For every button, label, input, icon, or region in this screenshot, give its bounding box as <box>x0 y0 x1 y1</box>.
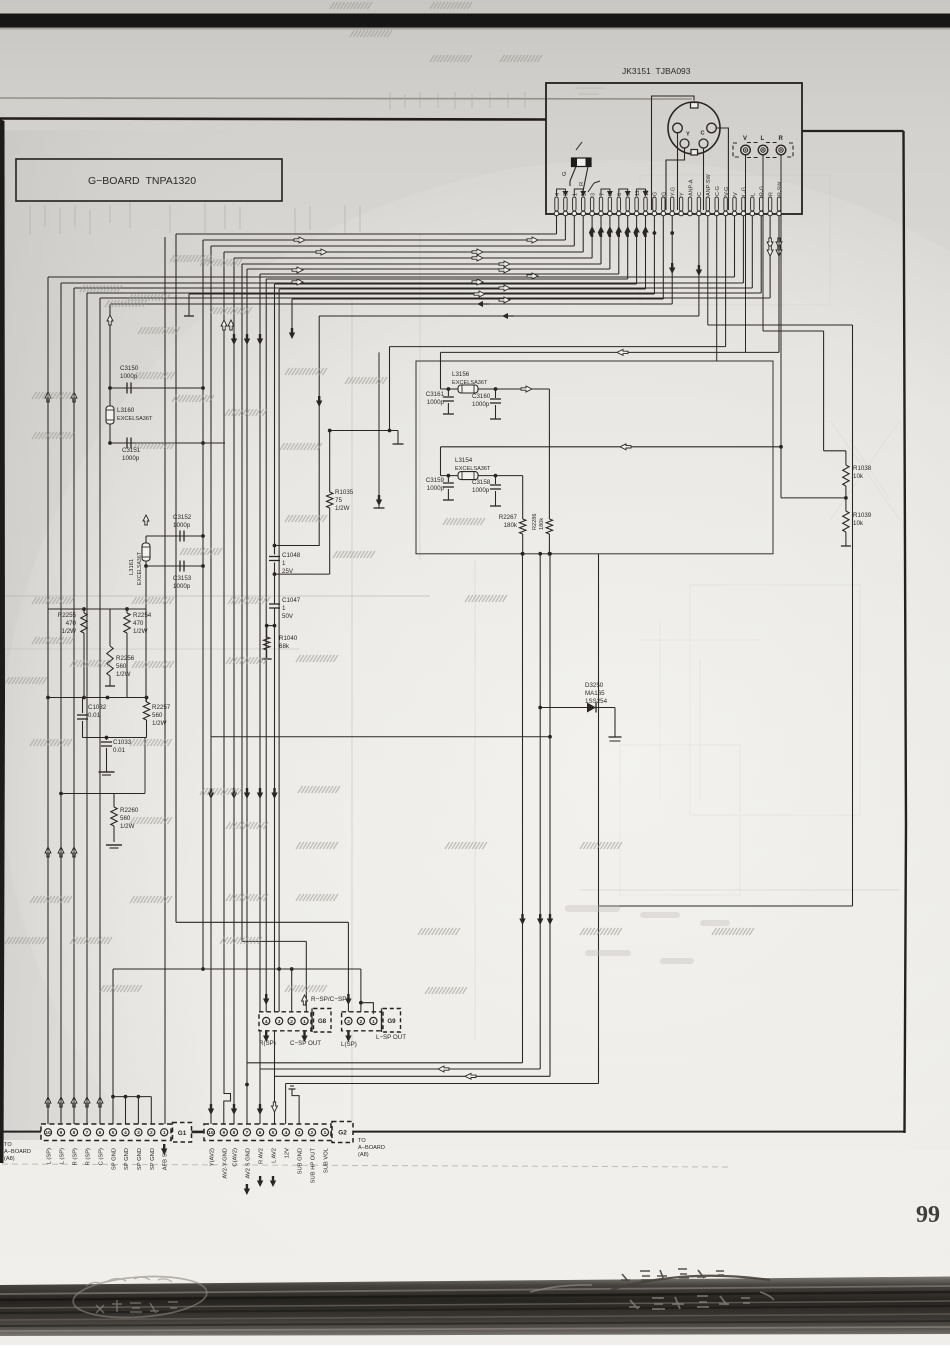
G1 pin 9 <box>57 1129 64 1136</box>
terminal R <box>776 145 786 155</box>
wire: G1 pin6 riser <box>99 298 101 1124</box>
svg-text:560: 560 <box>120 815 131 822</box>
wire: G2 pin5 riser upper segment (to C1048) <box>274 284 276 555</box>
connector G2 dashed outline <box>204 1124 331 1141</box>
down arrows on risers y=920 <box>519 914 525 925</box>
capacitor C3158 <box>495 476 497 484</box>
resistor R2254 <box>126 609 128 613</box>
filled down arrows on Y-G and C wires <box>669 263 675 274</box>
svg-text:1/2W: 1/2W <box>62 628 77 635</box>
svg-text:2: 2 <box>150 1130 153 1136</box>
svg-text:SUB VOL: SUB VOL <box>323 1147 329 1173</box>
G9 pin 1 <box>370 1017 377 1024</box>
junction dots on pin wires <box>653 231 657 235</box>
svg-text:75: 75 <box>335 497 342 504</box>
svg-text:G9: G9 <box>387 1018 396 1025</box>
extra bleed smudges <box>565 905 730 964</box>
ground R2260 <box>106 844 122 846</box>
svg-text:1000p: 1000p <box>173 583 191 590</box>
svg-text:1/2W: 1/2W <box>116 671 131 678</box>
svg-text:4: 4 <box>285 1130 288 1136</box>
wire: G8 pin3 riser <box>278 289 280 1012</box>
svg-text:3: 3 <box>590 193 596 196</box>
svg-text:8: 8 <box>73 1130 76 1136</box>
svg-text:L AV2: L AV2 <box>272 1148 278 1163</box>
svg-text:R−SP/C−SP: R−SP/C−SP <box>311 996 347 1003</box>
svg-text:EXCELSA36T: EXCELSA36T <box>452 380 488 386</box>
filled up arrows under connector pins <box>589 226 595 237</box>
svg-text:1: 1 <box>303 1019 306 1025</box>
svg-text:EXCELSA36T: EXCELSA36T <box>117 416 153 422</box>
svg-text:1/2W: 1/2W <box>133 628 148 635</box>
hollow left arrows on G2 feed lines <box>438 1066 449 1072</box>
G8 pin 4 <box>263 1017 270 1024</box>
svg-text:R: R <box>579 182 585 186</box>
net dots at y=430.5 <box>330 430 398 432</box>
svg-text:3: 3 <box>137 1130 140 1136</box>
svg-text:10k: 10k <box>853 473 864 480</box>
G1 pin 6 <box>96 1129 103 1136</box>
svg-text:A−BOARD: A−BOARD <box>358 1145 385 1151</box>
capacitor C1048 (electrolytic) <box>269 556 280 558</box>
diode D3250 MA165 1SS254 <box>538 706 542 710</box>
G8 pin 2 <box>288 1017 295 1024</box>
svg-text:1000p: 1000p <box>173 522 191 529</box>
bottom scan bar <box>0 1277 950 1337</box>
svg-text:C3159: C3159 <box>426 477 445 484</box>
svg-text:2: 2 <box>290 1019 293 1025</box>
wire bottom of C1032/R2257 <box>83 737 147 739</box>
svg-text:SP GND: SP GND <box>112 1148 118 1170</box>
svg-text:4: 4 <box>124 1130 127 1136</box>
svg-text:0.01: 0.01 <box>113 747 126 754</box>
svg-text:TO: TO <box>358 1138 366 1144</box>
resistor R2260 <box>61 793 145 795</box>
svg-text:4: 4 <box>265 1019 268 1025</box>
arrows middle bundle at y=794 <box>208 788 214 799</box>
svg-text:R(SP): R(SP) <box>259 1040 276 1047</box>
svg-text:G8: G8 <box>318 1018 327 1025</box>
wire: to G2 pin4 <box>286 1083 599 1085</box>
svg-text:7: 7 <box>86 1130 89 1136</box>
svg-text:11: 11 <box>635 190 641 196</box>
G1 pin 3 <box>135 1129 142 1136</box>
svg-text:180k: 180k <box>539 518 545 530</box>
svg-text:R2267: R2267 <box>499 514 518 521</box>
G2 pin 7 <box>243 1129 250 1136</box>
G2 label box <box>332 1122 353 1143</box>
inductor L3161 <box>145 536 147 702</box>
svg-text:6: 6 <box>99 1130 102 1136</box>
inductor L3154 <box>441 475 523 477</box>
svg-text:EXCELSA36T: EXCELSA36T <box>137 551 143 585</box>
capacitor C3159 <box>447 476 449 482</box>
connector JK3151 TJBA093 box <box>546 83 802 214</box>
svg-text:AV2-Y-GND: AV2-Y-GND <box>222 1148 228 1179</box>
svg-text:L3160: L3160 <box>117 407 135 414</box>
svg-text:68k: 68k <box>279 643 290 650</box>
svg-text:V-G: V-G <box>724 187 730 196</box>
svg-text:470: 470 <box>66 620 77 627</box>
G1 pin 2 <box>148 1129 155 1136</box>
svg-text:6: 6 <box>617 193 623 196</box>
heavy rule <box>0 119 546 120</box>
wire fan far-left to G1 risers <box>48 276 735 278</box>
G2 pin 1 <box>321 1129 328 1136</box>
svg-text:3: 3 <box>298 1130 301 1136</box>
dashed box around V L R terminals <box>733 143 793 158</box>
G9 pin 3 <box>345 1017 352 1024</box>
resistor R1040 <box>266 626 268 637</box>
arrows above G1 <box>45 1097 51 1107</box>
capacitor C3153 <box>146 565 203 567</box>
svg-text:R AV2: R AV2 <box>259 1148 265 1164</box>
svg-text:99: 99 <box>916 1202 940 1228</box>
svg-text:C: C <box>701 131 705 137</box>
svg-text:L−SP OUT: L−SP OUT <box>376 1034 406 1041</box>
resistor R2267 <box>522 476 524 519</box>
G1 pin 1 <box>161 1129 168 1136</box>
svg-text:5: 5 <box>272 1130 275 1136</box>
resistor R1038 <box>845 451 847 465</box>
svg-text:SUB GND: SUB GND <box>298 1148 304 1174</box>
wire: G1 pin10 riser <box>47 277 49 1124</box>
left page gutter bar <box>0 119 5 1163</box>
svg-text:10: 10 <box>45 1130 51 1136</box>
svg-text:R: R <box>779 136 784 142</box>
wire: G2 pin7 riser <box>246 269 248 1124</box>
wire: G1 SP GND bus <box>113 1096 151 1098</box>
G2 pin 9 <box>220 1129 227 1136</box>
svg-text:MA165: MA165 <box>585 690 605 697</box>
G9 pin 2 <box>357 1017 364 1024</box>
G-BOARD TNPA1320 title box <box>16 159 282 201</box>
wire: tap from divider to x=790 <box>781 497 846 499</box>
wire: riser x=825.6 to divider <box>823 331 825 451</box>
svg-text:6: 6 <box>259 1130 262 1136</box>
svg-text:180k: 180k <box>504 522 518 529</box>
svg-text:EXCELSA36T: EXCELSA36T <box>455 466 491 472</box>
wire: S-video internal Y/C routing <box>652 96 695 172</box>
svg-text:JK3151 TJBA093: JK3151 TJBA093 <box>622 66 691 76</box>
inductor L3156 <box>441 388 550 390</box>
svg-text:10k: 10k <box>853 520 864 527</box>
svg-text:C3152: C3152 <box>173 514 192 521</box>
svg-text:(A8): (A8) <box>358 1152 369 1158</box>
svg-text:G−BOARD TNPA1320: G−BOARD TNPA1320 <box>88 175 196 187</box>
G2 pin 2 <box>308 1129 315 1136</box>
svg-text:R2286: R2286 <box>532 514 538 530</box>
svg-text:G1: G1 <box>178 1130 187 1137</box>
svg-text:7: 7 <box>599 193 605 196</box>
svg-text:(A8): (A8) <box>4 1156 15 1162</box>
svg-text:C(AV2): C(AV2) <box>233 1148 239 1167</box>
schematic border top-right <box>802 130 904 132</box>
svg-text:1/2W: 1/2W <box>335 505 350 512</box>
svg-text:3: 3 <box>278 1019 281 1025</box>
capacitor C1033 <box>106 738 108 741</box>
inductor L3160 <box>109 304 111 443</box>
capacitor C3152 <box>146 535 203 537</box>
filter sub-circuit box <box>416 361 773 554</box>
svg-text:1000p: 1000p <box>472 487 490 494</box>
capacitor C1047 (electrolytic) <box>269 603 280 605</box>
wire: to G8 pin1 (C-SP) <box>241 264 243 941</box>
thin gray rule <box>0 98 692 99</box>
stamp left <box>72 1272 208 1321</box>
svg-text:C: C <box>697 192 703 196</box>
svg-text:1: 1 <box>163 1130 166 1136</box>
wire: riser x=522.5 to G2 pin7 <box>522 554 524 1063</box>
svg-text:5: 5 <box>112 1130 115 1136</box>
svg-text:Y(AV2): Y(AV2) <box>209 1148 215 1166</box>
ground D3250 <box>609 736 622 738</box>
terminal L <box>758 145 768 155</box>
svg-text:L (SP): L (SP) <box>47 1148 53 1164</box>
resistor R2257 <box>146 698 148 703</box>
svg-text:R2257: R2257 <box>152 704 171 711</box>
arrow below G1 pin1 <box>161 1144 167 1155</box>
wire: feed to L3156 row <box>441 351 780 353</box>
wire: divider feed from L terminal <box>763 330 824 332</box>
svg-text:1: 1 <box>324 1130 327 1136</box>
G8 label box <box>314 1009 332 1033</box>
wire: G stub down from fan corner <box>291 299 293 338</box>
wire: G2 pin5 riser lower part via C1047 net <box>274 563 276 605</box>
svg-text:C1033: C1033 <box>113 739 132 746</box>
wire: to G9 pin3 (L-SP) <box>175 234 177 922</box>
G2 pin 10 <box>207 1129 214 1136</box>
resistor R2286 drop from L3156 line <box>548 389 550 519</box>
svg-text:1/2W: 1/2W <box>120 823 135 830</box>
svg-text:9: 9 <box>60 1130 63 1136</box>
down arrow on x=318 <box>316 396 322 407</box>
wire: G1 pin8 riser <box>73 288 75 1124</box>
wire: G2 pin9 riser with jog <box>224 252 231 1124</box>
svg-text:L(SP): L(SP) <box>341 1041 357 1048</box>
schematic border right <box>904 131 907 1133</box>
svg-text:R1039: R1039 <box>853 512 872 519</box>
svg-text:Y-G: Y-G <box>671 187 677 196</box>
svg-text:G2: G2 <box>338 1130 347 1137</box>
svg-text:R-SW: R-SW <box>777 181 783 196</box>
fuse/jumper G-R component <box>572 158 592 167</box>
svg-text:Y: Y <box>679 192 685 196</box>
svg-text:2: 2 <box>311 1130 314 1136</box>
G2 pin 8 <box>230 1129 237 1136</box>
hollow arrow pair at y=325 <box>221 320 227 330</box>
svg-text:SP GND: SP GND <box>137 1148 143 1170</box>
svg-text:1: 1 <box>282 560 286 567</box>
svg-text:L: L <box>751 193 757 196</box>
wire: ANP-SW to right loop <box>708 324 853 326</box>
svg-text:12V: 12V <box>284 1148 290 1158</box>
svg-text:L3161: L3161 <box>129 559 135 575</box>
connector G8 dashed outline <box>259 1012 311 1031</box>
resistor bus y=609 <box>48 608 146 610</box>
wire fan from JK3151 pins to middle bundle <box>176 233 557 235</box>
stamp right <box>610 1269 770 1290</box>
svg-text:C1032: C1032 <box>88 704 107 711</box>
svg-text:Y: Y <box>686 132 690 138</box>
svg-text:470: 470 <box>133 620 144 627</box>
wire to C1048 node <box>275 573 330 575</box>
arrows above G2 <box>208 1104 214 1115</box>
G2 pin 3 <box>296 1129 303 1136</box>
svg-text:ANP-A: ANP-A <box>688 179 694 196</box>
svg-text:0.01: 0.01 <box>88 712 101 719</box>
wire: to G8 pin4 (R-SP) <box>265 279 267 1012</box>
ground R1040 <box>262 658 272 660</box>
wire: G2 pin10 riser <box>210 246 212 1124</box>
wire: C-G pin stub to box top <box>716 216 718 361</box>
G2 pin 5 <box>269 1129 276 1136</box>
svg-text:C3160: C3160 <box>472 393 491 400</box>
svg-text:25V: 25V <box>282 568 294 575</box>
svg-text:C1047: C1047 <box>282 597 301 604</box>
svg-text:1/2W: 1/2W <box>152 720 167 727</box>
svg-text:R-G: R-G <box>760 186 766 196</box>
svg-text:C−SP OUT: C−SP OUT <box>290 1040 321 1047</box>
top page border bar <box>0 14 950 28</box>
resistor R2255 <box>83 609 85 613</box>
svg-text:C3150: C3150 <box>120 365 139 372</box>
wire: R terminal lead <box>780 155 782 447</box>
wire: V-G riser to node <box>389 347 391 431</box>
hollow down arrows on R/R-SW wires <box>767 238 773 248</box>
node dots y=625.6 <box>267 625 275 627</box>
arrows left at y=397 <box>45 392 51 402</box>
ground stub at left end of G bus <box>188 294 190 316</box>
G8 pin 3 <box>276 1017 283 1024</box>
svg-text:R2255: R2255 <box>58 612 77 619</box>
svg-text:1000p: 1000p <box>427 399 445 406</box>
wire: riser x=550 to G2 pin5 <box>549 554 551 1077</box>
resistor R1039 <box>843 511 849 532</box>
G1 pin 7 <box>83 1129 90 1136</box>
wire: G2 pin6 riser <box>259 274 261 1124</box>
svg-text:R1035: R1035 <box>335 489 354 496</box>
svg-text:R2254: R2254 <box>133 612 152 619</box>
arrows on fan wires <box>294 237 305 243</box>
wire bundle middle: AFB SW riser (G1 pin1) <box>164 237 166 1124</box>
arrows middle bundle at y=340 <box>231 334 237 345</box>
G1 label box <box>173 1123 192 1143</box>
capacitor C3150 <box>110 387 203 389</box>
svg-text:3: 3 <box>347 1019 350 1025</box>
end bar R1039 <box>841 545 851 547</box>
svg-text:R: R <box>768 192 774 196</box>
svg-text:1: 1 <box>573 193 579 196</box>
capacitor C3161 <box>447 389 449 396</box>
S-video jack U-circle <box>668 102 720 154</box>
svg-text:1: 1 <box>372 1019 375 1025</box>
wire: horizontal tap to pin10 riser <box>211 736 550 738</box>
svg-text:8: 8 <box>233 1130 236 1136</box>
capacitor C1032 <box>82 698 84 714</box>
G2 pin 4 <box>282 1129 289 1136</box>
svg-text:L (SP): L (SP) <box>60 1148 66 1164</box>
pin group brackets <box>557 189 566 196</box>
capacitor C3160 <box>495 389 497 398</box>
wire: L terminal lead <box>762 155 764 331</box>
svg-text:G: G <box>562 171 568 176</box>
svg-text:560: 560 <box>116 663 127 670</box>
connector G9 dashed outline <box>342 1012 382 1031</box>
svg-text:4: 4 <box>555 193 561 196</box>
svg-text:SUB HP OUT: SUB HP OUT <box>311 1148 317 1184</box>
svg-text:V: V <box>733 192 739 196</box>
svg-text:R2256: R2256 <box>116 655 135 662</box>
wire: G1 pin7 riser <box>86 293 88 1124</box>
svg-text:R1040: R1040 <box>279 635 298 642</box>
wire: C-net riser x=203 <box>202 240 204 969</box>
svg-text:2: 2 <box>360 1019 363 1025</box>
wire: V terminal lead <box>745 155 747 352</box>
G1 pin 8 <box>70 1129 77 1136</box>
svg-text:R1038: R1038 <box>853 465 872 472</box>
svg-text:1000p: 1000p <box>122 455 140 462</box>
svg-text:C3161: C3161 <box>426 391 445 398</box>
svg-text:1: 1 <box>282 605 286 612</box>
svg-text:L: L <box>761 136 765 142</box>
svg-text:C1048: C1048 <box>282 552 301 559</box>
junction bus to G8/G9 (SP GND) <box>113 968 361 970</box>
G1 pin 4 <box>122 1129 129 1136</box>
switch tick marks <box>588 183 594 192</box>
wire: right loop down <box>852 325 854 906</box>
arrows below G2 labels <box>244 1184 250 1195</box>
wire: feed to L3154 row <box>441 446 782 448</box>
svg-text:10: 10 <box>208 1130 214 1136</box>
svg-text:D3250: D3250 <box>585 682 604 689</box>
resistor R1035 <box>329 431 331 493</box>
wire: C-pin riser x=319 with jog to C1048 <box>275 316 320 555</box>
G8 pin 1 <box>301 1017 308 1024</box>
svg-text:1000p: 1000p <box>472 401 490 408</box>
wire: G2 pin8 riser <box>233 258 235 1124</box>
resistor R2256 <box>109 609 111 646</box>
G1 pin 5 <box>109 1129 116 1136</box>
svg-text:AV2 S GND: AV2 S GND <box>245 1148 251 1179</box>
arrows mid-left at y=852 <box>45 847 51 857</box>
svg-text:SP GND: SP GND <box>150 1148 156 1170</box>
svg-text:TO: TO <box>4 1142 12 1148</box>
svg-text:C3151: C3151 <box>122 447 141 454</box>
schematic border bottom <box>0 1131 905 1133</box>
terminal V <box>741 145 751 155</box>
svg-text:9: 9 <box>222 1130 225 1136</box>
svg-text:C3153: C3153 <box>173 575 192 582</box>
svg-text:R (SP): R (SP) <box>86 1148 92 1165</box>
connector G1 dashed outline <box>41 1124 171 1141</box>
G1 pin 10 <box>44 1129 51 1136</box>
svg-text:1000p: 1000p <box>427 485 445 492</box>
wire: riser x=540.2 to G2 pin6 <box>539 554 541 1069</box>
wire: G2 pin3 ground jog <box>292 1089 299 1124</box>
G9 label box <box>383 1009 401 1033</box>
wire: G8 pin2 riser <box>291 969 293 1012</box>
svg-text:ANP-SW: ANP-SW <box>706 174 712 196</box>
wire: left feed riser <box>440 352 442 389</box>
svg-text:C3158: C3158 <box>472 479 491 486</box>
svg-text:C (SP): C (SP) <box>99 1148 105 1165</box>
svg-text:SP GND: SP GND <box>124 1148 130 1170</box>
wire: G1 pin9 riser <box>60 283 62 1124</box>
node bus y=697.5 <box>48 697 147 699</box>
svg-text:G: G <box>653 192 659 196</box>
wire G9 pin1 to pin2 loop <box>361 1003 374 1014</box>
